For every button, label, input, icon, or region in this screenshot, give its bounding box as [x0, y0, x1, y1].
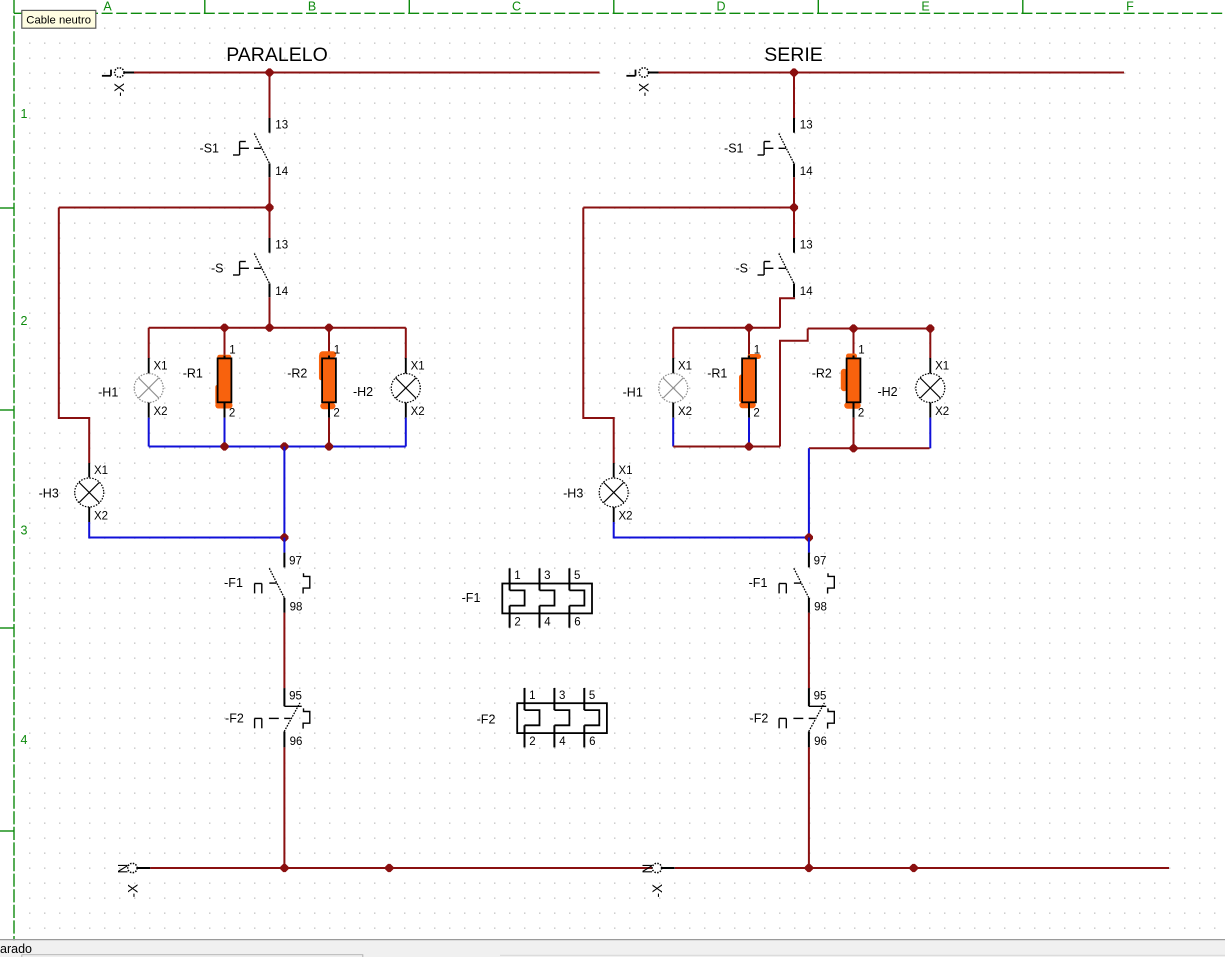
pin 98 of F1 S [814, 602, 827, 614]
label -H3 P [39, 487, 59, 501]
svg-text:97: 97 [289, 556, 302, 568]
pin 96 of F2 S [814, 736, 827, 748]
pin X1 of H2 P [411, 361, 425, 373]
thermal overload power contacts -F2 [517, 688, 607, 747]
label -H3 S [563, 487, 583, 501]
wire to H2 S [929, 329, 931, 359]
wire phase line top S [659, 72, 1125, 74]
wire F1 to F2 S [808, 613, 810, 688]
label -F1 P [224, 576, 243, 590]
svg-text:3: 3 [21, 524, 28, 538]
pin 2 of R2 P [333, 408, 339, 420]
svg-text:1: 1 [754, 345, 760, 357]
svg-text:-H2: -H2 [877, 385, 897, 399]
wire phase line top P [134, 72, 600, 74]
wire R2 to bottom rail S [853, 418, 855, 449]
junction R1 bottom S [745, 443, 752, 450]
wire S to parallel rail P [269, 297, 271, 327]
wire to H2 P [405, 328, 407, 358]
svg-text:-H3: -H3 [563, 487, 583, 501]
pin 1 of R1 P [229, 345, 235, 357]
junction neutral spare S [910, 864, 917, 871]
svg-text:6: 6 [574, 617, 580, 629]
wire S jog to R1 rail S [780, 297, 794, 327]
label -H2 S [877, 385, 897, 399]
wire to S P [269, 208, 271, 239]
svg-text:5: 5 [574, 570, 580, 582]
wire neutral line bottom right [675, 867, 1169, 869]
lamp -H1 S [659, 358, 688, 418]
svg-text:-S1: -S1 [200, 142, 220, 156]
pin 14 of S1 P [275, 166, 288, 178]
lamp -H3 S [599, 463, 628, 522]
row ticks [0, 208, 14, 831]
pushbutton -S S [758, 238, 795, 297]
label -S P [211, 262, 224, 276]
pin X2 of H3 P [94, 511, 108, 523]
wire S1 to node P [269, 177, 271, 207]
terminal -X (L) top P [102, 68, 134, 97]
wire top rail P [149, 327, 406, 329]
label -S1 P [200, 142, 220, 156]
pin 4 of -F2 [559, 736, 566, 748]
label -F2 P [225, 711, 244, 725]
junction row2 S [790, 204, 797, 211]
thermal NC contact -F2 P [255, 688, 310, 747]
svg-text:X1: X1 [935, 361, 949, 373]
svg-text:1: 1 [21, 107, 28, 121]
svg-text:3: 3 [559, 690, 565, 702]
junction R2 top S [850, 325, 857, 332]
junction neutral S [805, 864, 812, 871]
svg-text:X1: X1 [154, 361, 168, 373]
svg-text:X1: X1 [411, 361, 425, 373]
orange highlight R1 P [217, 357, 229, 405]
svg-text:PARALELO: PARALELO [226, 44, 328, 66]
wire neutral line bottom left [150, 867, 653, 869]
junction F drop bottom P [281, 443, 288, 450]
status bar [0, 940, 1225, 957]
svg-text:F: F [1126, 0, 1134, 14]
svg-text:1: 1 [514, 570, 520, 582]
svg-text:-R2: -R2 [287, 367, 307, 381]
svg-text:D: D [716, 0, 725, 14]
svg-text:1: 1 [858, 345, 864, 357]
pin 1 of -F1 [514, 570, 520, 582]
svg-text:1: 1 [334, 345, 340, 357]
pin 1 of R1 S [754, 345, 760, 357]
svg-text:-X: -X [650, 884, 665, 898]
pin 6 of -F1 [574, 617, 580, 629]
junction neutral spare P [386, 864, 393, 871]
lamp -H2 P [391, 358, 420, 418]
pin 98 of F1 P [290, 602, 303, 614]
svg-text:-S: -S [736, 262, 749, 276]
wire node to F1 P [283, 538, 285, 553]
wire R1 to bottom rail P [224, 418, 226, 447]
junction row2 P [266, 204, 273, 211]
thermal NC contact -F2 S [779, 688, 834, 747]
svg-text:X2: X2 [411, 406, 425, 418]
svg-text:2: 2 [21, 314, 28, 328]
svg-text:-F1: -F1 [224, 576, 243, 590]
pin 96 of F2 P [290, 736, 303, 748]
svg-text:2: 2 [229, 408, 235, 420]
svg-text:97: 97 [814, 556, 827, 568]
wire F1 to F2 P [283, 613, 285, 688]
svg-text:4: 4 [21, 733, 28, 747]
row labels 1-4 [21, 107, 28, 747]
svg-text:6: 6 [589, 736, 595, 748]
lamp -H2 S [916, 358, 945, 418]
svg-text:13: 13 [275, 240, 288, 252]
wire to S1 P [269, 73, 271, 119]
wire to S1 S [793, 73, 795, 119]
relay coil -R2 P [322, 356, 336, 418]
svg-text:13: 13 [800, 240, 813, 252]
junction R2 top P [325, 324, 332, 331]
wire left branch to H3 S [583, 208, 613, 464]
label -F1 S [749, 576, 768, 590]
pin 2 of -F1 [514, 617, 520, 629]
wire H2 to bottom rail S [929, 418, 931, 449]
svg-text:Cable neutro: Cable neutro [26, 15, 91, 27]
wire R2 group top rail S [808, 328, 930, 330]
wire bottom rail P [149, 446, 406, 448]
svg-text:-X: -X [112, 83, 127, 97]
label -S S [736, 262, 749, 276]
wire S1 to node S [793, 177, 795, 207]
junction top P [266, 69, 273, 76]
svg-text:2: 2 [529, 736, 535, 748]
junction R2 bottom P [325, 443, 332, 450]
pin X1 of H3 P [94, 465, 108, 477]
relay coil -R2 S [847, 356, 861, 418]
wire to H1 S [672, 328, 674, 358]
svg-text:X2: X2 [678, 406, 692, 418]
terminal -X (N) bottom S [640, 863, 675, 897]
svg-text:2: 2 [753, 408, 759, 420]
pin 14 of S P [275, 286, 288, 298]
pin 14 of S S [800, 286, 813, 298]
svg-text:13: 13 [275, 120, 288, 132]
wire rail row2 P [59, 207, 270, 209]
junction neutral P [281, 864, 288, 871]
column labels A-F [103, 0, 1134, 14]
svg-text:X1: X1 [94, 465, 108, 477]
svg-text:X2: X2 [619, 511, 633, 523]
pin 13 of S S [800, 240, 813, 252]
wire to S S [793, 208, 795, 239]
svg-text:-H1: -H1 [98, 386, 118, 400]
pin 1 of R2 S [858, 345, 864, 357]
wire to R2 coil S [853, 329, 855, 356]
svg-text:SERIE: SERIE [764, 44, 823, 66]
pin 5 of -F2 [589, 690, 595, 702]
thermal NO contact -F1 P [255, 553, 310, 613]
pin 6 of -F2 [589, 736, 595, 748]
wire R1 group bottom rail S [673, 446, 780, 448]
svg-text:arado: arado [0, 942, 32, 956]
relay coil -R1 S [742, 356, 756, 418]
svg-text:3: 3 [544, 570, 550, 582]
wire R2 to bottom rail P [328, 418, 330, 447]
terminal -X (L) top S [626, 68, 658, 97]
junction S top rail P [266, 324, 273, 331]
pin 95 of F2 P [289, 690, 302, 702]
label -H1 S [623, 386, 643, 400]
pin X1 of H1 P [154, 361, 168, 373]
wire H1 to bottom rail S [672, 418, 674, 447]
label -R1 S [707, 367, 727, 381]
wire H3 to node P [89, 522, 284, 538]
pin 2 of -F2 [529, 736, 535, 748]
svg-text:-R2: -R2 [812, 367, 832, 381]
lamp -H1 P [134, 358, 163, 418]
svg-text:-R1: -R1 [183, 367, 203, 381]
pin X2 of H1 P [154, 406, 168, 418]
svg-text:C: C [512, 0, 521, 14]
svg-text:95: 95 [289, 690, 302, 702]
label -R1 P [183, 367, 203, 381]
svg-text:96: 96 [814, 736, 827, 748]
svg-text:96: 96 [290, 736, 303, 748]
pin X2 of H2 P [411, 406, 425, 418]
wire drop to H3 node S [808, 448, 810, 537]
svg-text:-F1: -F1 [749, 576, 768, 590]
svg-text:E: E [921, 0, 929, 14]
title SERIE [764, 44, 823, 66]
wire R2 group bottom rail S [809, 447, 930, 449]
pin 97 of F1 P [289, 556, 302, 568]
wire R1 group top rail S [673, 327, 780, 329]
thermal NO contact -F1 S [779, 553, 834, 613]
label -S1 S [724, 142, 744, 156]
label -F2 S [750, 711, 769, 725]
pin 2 of R1 S [753, 408, 759, 420]
sheet border frame top [14, 12, 1225, 14]
pin X2 of H3 S [619, 511, 633, 523]
orange highlight R2 P [321, 355, 333, 407]
svg-text:4: 4 [544, 617, 551, 629]
svg-text:2: 2 [333, 408, 339, 420]
label -H2 P [353, 385, 373, 399]
svg-text:98: 98 [290, 602, 303, 614]
svg-text:X2: X2 [935, 406, 949, 418]
wire to H1 P [148, 328, 150, 358]
svg-text:X2: X2 [154, 406, 168, 418]
svg-text:-R1: -R1 [707, 367, 727, 381]
wire to R2 coil P [328, 328, 330, 356]
wire H2 to bottom rail P [405, 418, 407, 447]
relay coil -R1 P [218, 356, 232, 418]
svg-text:A: A [103, 0, 112, 14]
wire node to F1 S [808, 538, 810, 553]
pin 2 of R1 P [229, 408, 235, 420]
pin X1 of H1 S [678, 361, 692, 373]
wire to R1 coil S [748, 328, 750, 356]
svg-text:-X: -X [637, 83, 652, 97]
svg-text:95: 95 [814, 690, 827, 702]
pin 3 of -F1 [544, 570, 550, 582]
status text Preparado (cropped) [0, 942, 32, 956]
svg-text:X2: X2 [94, 511, 108, 523]
wire series link R1-R2 S [780, 329, 808, 447]
title PARALELO [226, 44, 328, 66]
junction top S [790, 69, 797, 76]
pin 5 of -F1 [574, 570, 580, 582]
label -R2 P [287, 367, 307, 381]
wire rail row2 S [583, 207, 794, 209]
wire drop to H3 node P [283, 447, 285, 538]
pin 97 of F1 S [814, 556, 827, 568]
terminal -X (N) bottom P [115, 863, 150, 897]
svg-text:14: 14 [275, 166, 288, 178]
pin 4 of -F1 [544, 617, 551, 629]
svg-text:4: 4 [559, 736, 566, 748]
svg-text:-H1: -H1 [623, 386, 643, 400]
junction H3 node S [805, 534, 812, 541]
pin 2 of R2 S [858, 408, 864, 420]
svg-text:X1: X1 [619, 465, 633, 477]
pin 13 of S1 P [275, 120, 288, 132]
sheet border frame left [13, 0, 15, 941]
label -H1 P [98, 386, 118, 400]
pin 13 of S P [275, 240, 288, 252]
label -R2 S [812, 367, 832, 381]
wire to R1 coil P [224, 328, 226, 356]
pin 14 of S1 S [800, 166, 813, 178]
lamp -H3 P [75, 463, 104, 522]
pin 3 of -F2 [559, 690, 565, 702]
svg-text:-F2: -F2 [225, 711, 244, 725]
svg-text:-F1: -F1 [462, 591, 481, 605]
pin X2 of H2 S [935, 406, 949, 418]
pin 1 of R2 P [334, 345, 340, 357]
wire H1 to bottom rail P [148, 418, 150, 447]
orange highlight R2 S [844, 356, 858, 406]
svg-text:5: 5 [589, 690, 595, 702]
svg-text:-F2: -F2 [477, 713, 496, 727]
svg-text:98: 98 [814, 602, 827, 614]
wire left branch to H3 P [59, 208, 89, 464]
junction R1 top P [221, 324, 228, 331]
wire F2 to neutral P [283, 747, 285, 868]
svg-text:-H2: -H2 [353, 385, 373, 399]
orange highlight R1 S [742, 357, 759, 406]
junction R2 bottom S [850, 445, 857, 452]
svg-text:-S: -S [211, 262, 224, 276]
pin 95 of F2 S [814, 690, 827, 702]
tooltip Cable neutro [22, 10, 96, 28]
pin X1 of H3 S [619, 465, 633, 477]
svg-text:X1: X1 [678, 361, 692, 373]
label -F2 power [477, 713, 496, 727]
svg-text:1: 1 [229, 345, 235, 357]
svg-text:14: 14 [275, 286, 288, 298]
svg-text:14: 14 [800, 286, 813, 298]
pushbutton -S P [233, 238, 270, 297]
svg-text:B: B [308, 0, 316, 14]
column ticks [205, 0, 1023, 13]
wire F2 to neutral S [808, 747, 810, 868]
pushbutton -S1 S [758, 118, 795, 177]
pin X1 of H2 S [935, 361, 949, 373]
svg-text:-F2: -F2 [750, 711, 769, 725]
junction H2 top corner S [927, 325, 934, 332]
junction R1 top S [745, 324, 752, 331]
wire R1 to bottom rail S [748, 418, 750, 447]
pushbutton -S1 P [233, 118, 270, 177]
wire H3 to node S [614, 522, 809, 538]
thermal overload power contacts -F1 [502, 568, 592, 627]
junction R1 bottom P [221, 443, 228, 450]
junction H3 node P [281, 534, 288, 541]
svg-text:14: 14 [800, 166, 813, 178]
svg-text:-X: -X [125, 884, 140, 898]
pin 1 of -F2 [529, 690, 535, 702]
pin X2 of H1 S [678, 406, 692, 418]
pin 13 of S1 S [800, 120, 813, 132]
svg-text:-S1: -S1 [724, 142, 744, 156]
svg-text:13: 13 [800, 120, 813, 132]
svg-text:2: 2 [858, 408, 864, 420]
svg-text:-H3: -H3 [39, 487, 59, 501]
label -F1 power [462, 591, 481, 605]
svg-text:2: 2 [514, 617, 520, 629]
svg-text:1: 1 [529, 690, 535, 702]
